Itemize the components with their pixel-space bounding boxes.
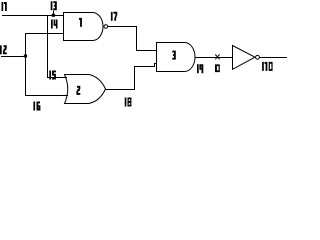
label I4: [51, 20, 58, 29]
label D: [215, 64, 220, 72]
wire I9/D net: gate 3 output to buffer input: [195, 57, 233, 59]
wire I1 net: input I1 to gate 1 top input: [2, 15, 64, 17]
wire I2 input: [1, 56, 26, 58]
wire I3 label leader: [53, 11, 55, 16]
nand gate U1 output bubble: [104, 25, 108, 29]
or gate U2 body: [65, 75, 106, 104]
wire I7 net: gate 1 output to gate 3 top input: [108, 27, 157, 51]
or gate U2 label 2: [76, 86, 80, 95]
junction node on I3 net: [52, 14, 55, 17]
label I8: [125, 98, 132, 107]
breakpoint marker X on net D: [215, 55, 219, 60]
wire I10 output: [260, 57, 287, 59]
wire I4 net: gate 1 bottom input and riser: [26, 34, 69, 96]
label I6: [33, 102, 40, 111]
wire I5 net: branch of I1 down to gate 2 top input: [48, 16, 68, 78]
nand gate U1 body: [64, 13, 104, 41]
nand gate U1 label 1: [79, 18, 82, 27]
label I5: [49, 71, 56, 80]
label I3: [51, 1, 57, 10]
inverter buffer U4 body: [233, 46, 256, 70]
inverter buffer U4 output bubble: [256, 55, 260, 59]
label I7: [111, 12, 117, 21]
label I10: [262, 62, 273, 71]
and gate U3 label 3: [172, 51, 176, 60]
junction node on I2 net: [24, 55, 27, 58]
wire I8 net: gate 2 output to gate 3 bottom input: [106, 64, 157, 90]
label I9: [197, 64, 203, 73]
and gate U3 body: [157, 43, 196, 72]
label I2: [0, 45, 7, 54]
label I1: [2, 2, 7, 11]
